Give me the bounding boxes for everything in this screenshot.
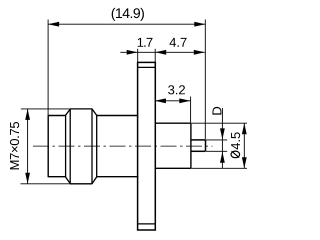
cylinder O4.5 [155, 123, 191, 168]
flange [138, 62, 156, 230]
value label 3.2 [168, 85, 185, 94]
value label (14.9) [112, 8, 144, 21]
dimension (14.9) [48, 20, 205, 140]
connector body (thread section) [48, 116, 66, 177]
pin (dia D) [191, 140, 206, 151]
value label D [212, 107, 221, 115]
body between hex and flange [97, 116, 139, 177]
value label 1.7 [138, 38, 153, 47]
value label 4.5 [231, 132, 240, 149]
diameter symbol [231, 151, 240, 158]
dimension 1.7 / 4.7 [120, 49, 205, 62]
centerline [33, 145, 213, 147]
dimension M7x0.75 [21, 109, 71, 184]
dimension D [206, 108, 227, 168]
dimension 3.2 [155, 97, 191, 124]
value label 4.7 [170, 38, 187, 47]
dimension O4.5 [191, 123, 247, 168]
hex nut [65, 109, 97, 184]
value label M7x0.75 [10, 122, 19, 169]
